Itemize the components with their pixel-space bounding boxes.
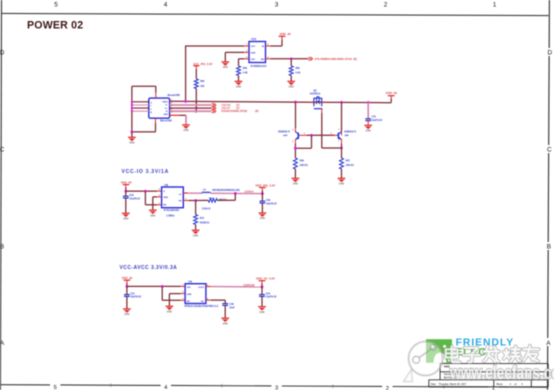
svg-text:C: C: [0, 146, 5, 153]
svg-text:Sheet: Sheet: [496, 383, 503, 386]
svg-text:3.3V/0.3A: 3.3V/0.3A: [243, 284, 254, 287]
svg-text:GND: GND: [251, 52, 256, 54]
svg-text:R70: R70: [200, 218, 205, 220]
svg-text:10K/1%: 10K/1%: [300, 165, 308, 167]
svg-text:D: D: [0, 49, 5, 56]
svg-text:GND: GND: [150, 215, 155, 217]
svg-text:RT9013-33GB/LP5907MFX-3.3: RT9013-33GB/LP5907MFX-3.3: [185, 305, 219, 308]
svg-text:22nF: 22nF: [229, 308, 235, 310]
svg-text:OST: OST: [251, 59, 256, 61]
svg-text:EN: EN: [261, 59, 264, 61]
svg-text:GND: GND: [366, 131, 371, 133]
svg-text:GND: GND: [293, 184, 298, 186]
svg-text:3.3V/1A: 3.3V/1A: [244, 191, 253, 194]
svg-text:C49: C49: [266, 199, 271, 202]
svg-text:VBUS: VBUS: [162, 102, 168, 104]
svg-text:10uF/6.3V: 10uF/6.3V: [266, 203, 277, 205]
svg-text:OTGDET/USB0E-OTGID: OTGDET/USB0E-OTGID: [221, 111, 247, 113]
svg-text:OUT: OUT: [251, 46, 256, 48]
svg-text:C50: C50: [129, 195, 134, 197]
svg-text:U9: U9: [188, 279, 192, 283]
svg-text:AO3401A: AO3401A: [310, 93, 321, 96]
svg-text:Date:: Date:: [431, 383, 437, 386]
svg-text:GND: GND: [163, 197, 168, 199]
svg-text:EN: EN: [163, 205, 166, 207]
svg-text:GND: GND: [223, 323, 228, 325]
svg-text:VDD_IN: VDD_IN: [386, 91, 398, 95]
svg-text:GND: GND: [123, 218, 128, 220]
svg-text:MountUSB: MountUSB: [168, 94, 180, 97]
svg-text:C51: C51: [131, 293, 136, 295]
svg-text:OTG-PWREN-USB0-IDDIG-3T1XX: OTG-PWREN-USB0-IDDIG-3T1XX: [315, 58, 353, 61]
svg-text:GND: GND: [223, 67, 228, 69]
svg-text:GND: GND: [289, 87, 294, 89]
svg-text:Q4B: Q4B: [344, 134, 349, 137]
svg-text:NC: NC: [201, 301, 205, 303]
svg-text:GND: GND: [339, 184, 344, 186]
svg-text:1: 1: [493, 2, 497, 9]
svg-text:C48: C48: [229, 303, 234, 306]
svg-text:GND: GND: [124, 314, 129, 316]
svg-text:C: C: [547, 146, 552, 153]
svg-text:C54A-R: C54A-R: [202, 207, 211, 210]
svg-text:R65: R65: [296, 68, 301, 70]
svg-text:VIN: VIN: [187, 287, 191, 289]
svg-text:3: 3: [275, 2, 279, 9]
svg-text:1.5MHz: 1.5MHz: [166, 215, 175, 218]
svg-text:VDD_IN: VDD_IN: [279, 32, 290, 36]
svg-text:www.elecfans.com: www.elecfans.com: [449, 363, 554, 383]
svg-text:GND: GND: [187, 294, 192, 296]
svg-text:C54: C54: [266, 292, 271, 295]
svg-text:POWER 02: POWER 02: [27, 19, 83, 31]
svg-text:Q4A: Q4A: [283, 134, 288, 137]
svg-text:10uF/6.3V: 10uF/6.3V: [266, 297, 277, 299]
svg-text:R62: R62: [200, 81, 205, 83]
svg-text:GND: GND: [193, 235, 198, 237]
svg-text:U10: U10: [251, 37, 257, 41]
svg-text:USB-DP: USB-DP: [221, 108, 230, 110]
svg-text:VOUT: VOUT: [198, 287, 205, 289]
svg-text:SS8050LT1: SS8050LT1: [278, 132, 291, 134]
svg-text:B: B: [0, 243, 4, 250]
svg-text:C73: C73: [372, 117, 377, 119]
svg-text:2: 2: [384, 2, 388, 9]
svg-text:GND: GND: [260, 218, 265, 220]
svg-text:10K: 10K: [200, 86, 205, 88]
svg-text:VCC-IO 3.3V/1A: VCC-IO 3.3V/1A: [122, 169, 169, 175]
svg-text:0.4K: 0.4K: [243, 72, 248, 75]
svg-text:5K36/1%: 5K36/1%: [200, 222, 209, 224]
svg-text:USB-DM: USB-DM: [221, 105, 230, 107]
svg-text:[R]: [R]: [236, 105, 239, 107]
svg-text:B: B: [547, 243, 551, 250]
svg-text:GND: GND: [183, 130, 188, 132]
svg-text:GND: GND: [167, 311, 172, 313]
svg-text:D-: D-: [166, 105, 168, 107]
svg-text:of: of: [514, 383, 516, 386]
svg-text:Thursday, March 30, 2017: Thursday, March 30, 2017: [439, 383, 467, 386]
svg-text:[R]: [R]: [255, 111, 258, 113]
svg-text:SS8050LT1: SS8050LT1: [344, 132, 357, 134]
svg-text:EN: EN: [187, 301, 190, 303]
svg-text:GND: GND: [163, 114, 168, 116]
svg-text:SY8089AAAC: SY8089AAAC: [251, 65, 267, 68]
svg-text:U8: U8: [164, 183, 168, 187]
svg-text:[R]: [R]: [236, 108, 239, 110]
svg-text:A: A: [0, 340, 5, 347]
svg-text:SY8113BADC: SY8113BADC: [164, 209, 180, 212]
svg-text:VCC-AVCC 3.3V/0.3A: VCC-AVCC 3.3V/0.3A: [120, 265, 178, 271]
svg-text:R37: R37: [346, 160, 351, 162]
svg-text:2: 2: [386, 386, 389, 390]
svg-text:R66: R66: [243, 68, 248, 70]
svg-text:A: A: [546, 340, 551, 347]
svg-text:5: 5: [54, 385, 57, 390]
svg-text:GND: GND: [259, 312, 264, 314]
svg-text:3: 3: [275, 385, 278, 390]
svg-text:D: D: [548, 49, 553, 56]
svg-text:MicroUSB: MicroUSB: [160, 119, 172, 122]
svg-text:10uF/6.3V: 10uF/6.3V: [131, 297, 142, 299]
svg-text:R36: R36: [300, 160, 305, 162]
svg-text:FB: FB: [179, 201, 182, 203]
svg-text:DR73B2R2/SPM6530-2R2: DR73B2R2/SPM6530-2R2: [212, 190, 240, 192]
svg-text:[R]: [R]: [354, 58, 358, 61]
svg-text:4: 4: [164, 2, 168, 9]
svg-text:GND: GND: [129, 143, 134, 145]
svg-text:10K/1%: 10K/1%: [346, 165, 354, 167]
svg-text:10uF/6.3V: 10uF/6.3V: [129, 198, 140, 200]
svg-text:GND: GND: [236, 87, 241, 89]
svg-text:0.4K: 0.4K: [296, 72, 301, 75]
svg-text:10uF/6.3V: 10uF/6.3V: [372, 120, 383, 122]
svg-text:5: 5: [54, 2, 58, 9]
